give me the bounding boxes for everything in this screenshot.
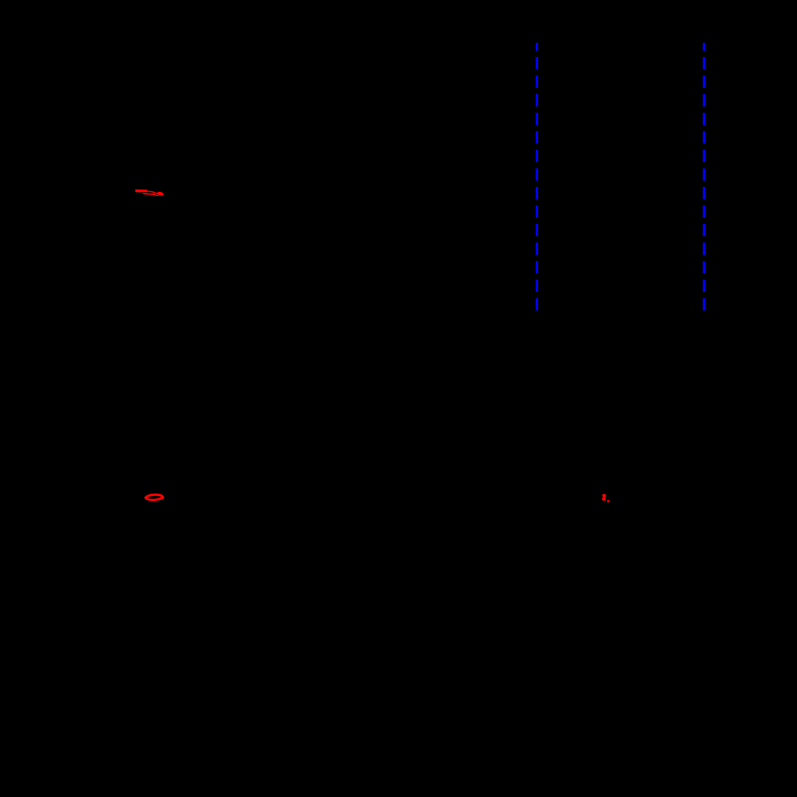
node B (red circle annotation, lower left) — [144, 494, 164, 500]
node A (red scribble-loop annotation, upper left) — [135, 189, 164, 196]
wire (blue dashed cut line 1) — [536, 43, 538, 311]
wire (blue dashed cut line 2) — [703, 43, 705, 311]
node C (small red mark annotation, lower middle) — [602, 494, 609, 503]
